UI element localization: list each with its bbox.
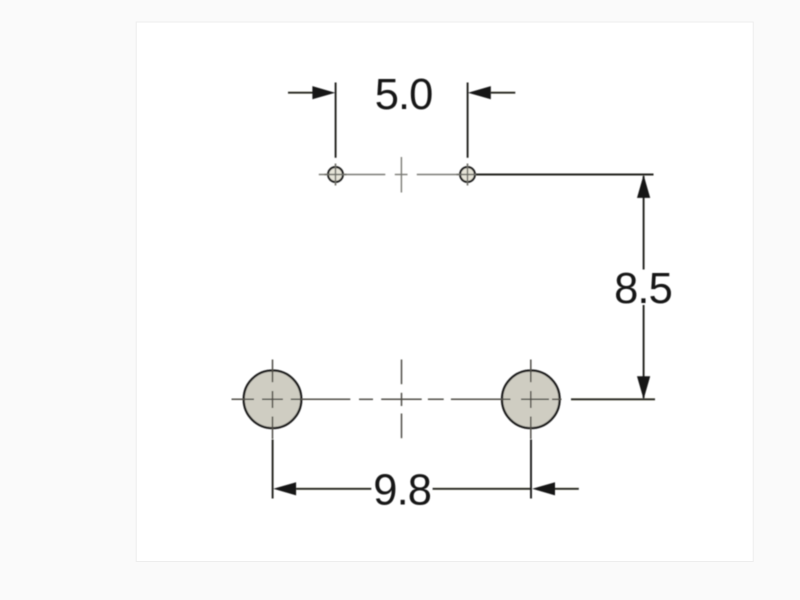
dimension 5.0 extension line right [467,83,469,158]
dimension 8.5 bottom extension line [571,398,655,400]
svg-text:5.0: 5.0 [375,71,433,119]
dimension 9.8 extension line right [530,440,532,499]
dimension 8.5 top extension line [476,174,654,176]
pad P1 (large, bottom-left) [244,371,302,429]
dimension 9.8 right arrowhead [532,482,555,495]
dimension 5.0 right leader [491,92,516,94]
hole H2 crosshair overlay [457,164,479,186]
pad P2 crosshair vertical [530,360,532,440]
hole H1 crosshair [335,164,337,186]
hole H2 crosshair [467,164,469,186]
dimension 9.8 line left [296,488,371,490]
dimension 8.5 line lower [643,305,645,398]
dimension 9.8 right tail [555,488,579,490]
bottom row centerline [232,398,562,400]
dimension 9.8 line right [433,488,532,490]
top row centerline [319,174,476,176]
top row center cross [400,157,402,193]
hole H2 (small, top-right) [460,167,475,182]
dimension 8.5 down arrowhead [637,376,650,399]
drawing panel [136,22,753,562]
pad P2 (large, bottom-right) [502,371,560,429]
svg-text:8.5: 8.5 [614,265,672,313]
dimension 5.0 left arrowhead [312,86,335,99]
svg-text:9.8: 9.8 [373,467,431,515]
dimension 9.8 left arrowhead [273,482,296,495]
dimension 5.0 extension line left [335,83,337,158]
dimension 9.8 extension line left [272,440,274,499]
bottom row center cross vertical [401,360,403,439]
hole H1 (small, top-left) [328,167,343,182]
hole H1 crosshair overlay [325,164,347,186]
pad P1 crosshair vertical [272,360,274,440]
dimension 5.0 right arrowhead [468,86,491,99]
dimension 8.5 line upper [643,176,645,270]
dimension 8.5 up arrowhead [637,175,650,198]
dimension 5.0 left leader [288,92,313,94]
